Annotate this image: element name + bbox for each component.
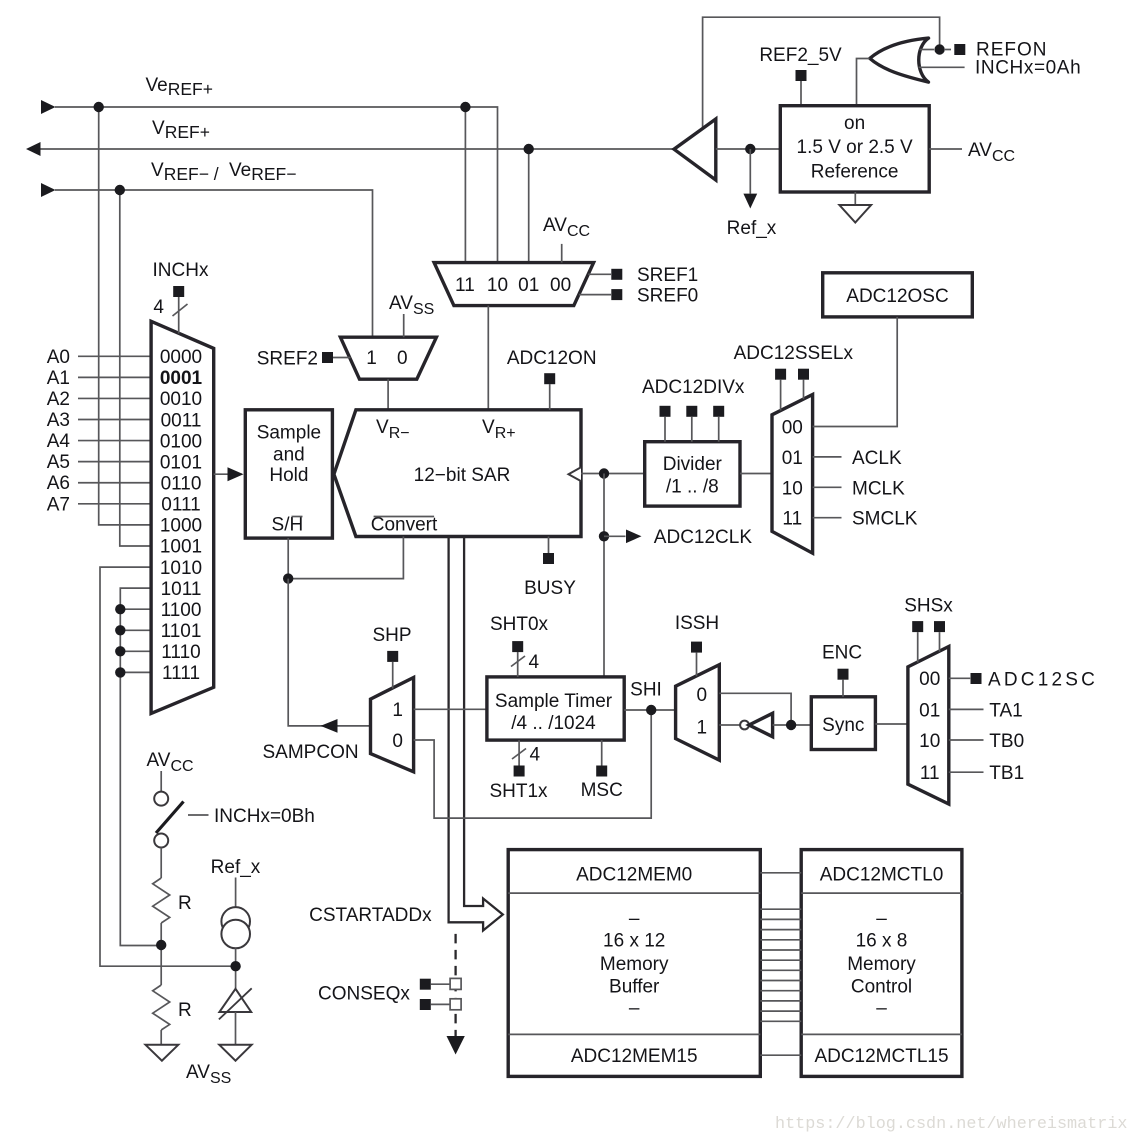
wire SSEL mux output to divider bbox=[740, 473, 772, 475]
svg-text:SHSx: SHSx bbox=[904, 596, 953, 617]
wire switch to INCHx=0Bh label bbox=[188, 814, 209, 816]
bus-width tick SHT0x bbox=[511, 656, 525, 667]
wire CONSEQx bit0 bbox=[431, 983, 450, 985]
svg-text:10: 10 bbox=[487, 275, 508, 296]
svg-text:INCHx: INCHx bbox=[153, 260, 209, 281]
arrowhead ADC12CLK bbox=[626, 530, 642, 544]
pin REFON square bbox=[954, 44, 965, 55]
svg-text:ADC12OSC: ADC12OSC bbox=[846, 286, 948, 307]
resistor R2 bbox=[153, 985, 170, 1030]
block U-MCTL 16x8 memory control bbox=[801, 850, 962, 1077]
svg-text:0: 0 bbox=[397, 348, 408, 369]
wire SSELx bit0 bbox=[780, 380, 782, 411]
pin ADC12ON square bbox=[544, 373, 555, 384]
wire temp-sensor net to mux row 1010 bbox=[100, 567, 236, 966]
block U-OSC ADC12OSC bbox=[823, 273, 973, 317]
block U-SYNC Sync bbox=[811, 697, 875, 750]
wire reference ground stem bbox=[854, 192, 856, 205]
wire Ve_REF+ line to ref-mux input 10 bbox=[55, 107, 498, 263]
svg-text:0: 0 bbox=[392, 731, 403, 752]
wire SREF0 from ref mux bbox=[579, 294, 611, 296]
svg-text:1.5 V or 2.5 V: 1.5 V or 2.5 V bbox=[797, 137, 914, 158]
wire SHP input 1 from sample timer bbox=[414, 708, 487, 710]
block U-REF 1.5V/2.5V Reference bbox=[780, 106, 929, 192]
wire AVCC to ref mux input 00 bbox=[561, 244, 563, 263]
node junction on divider net bbox=[115, 646, 125, 656]
wire mux input row 1001 from V_REF- bbox=[120, 190, 151, 546]
svg-text:Control: Control bbox=[851, 977, 912, 998]
svg-text:A2: A2 bbox=[47, 389, 70, 410]
node junction sync output bbox=[786, 720, 796, 730]
pin ADC12SC square bbox=[971, 673, 982, 684]
node junction V_REF+ / input 01 bbox=[524, 144, 534, 154]
svg-text:00: 00 bbox=[919, 669, 940, 690]
node junction V_REF- / row 1001 bbox=[115, 185, 125, 195]
svg-text:1111: 1111 bbox=[162, 663, 200, 684]
pin SREF0 square bbox=[611, 289, 622, 300]
svg-text:4: 4 bbox=[529, 652, 540, 673]
wire channel A3 input bbox=[78, 419, 151, 421]
svg-text:MCLK: MCLK bbox=[852, 478, 905, 499]
wire ADC12ON to SAR bbox=[549, 384, 551, 410]
wire V_REF-/Ve_REF- line to SREF2 mux input 1 bbox=[55, 190, 373, 337]
svg-text:R: R bbox=[178, 893, 192, 914]
svg-text:TA1: TA1 bbox=[989, 700, 1022, 721]
svg-text:Buffer: Buffer bbox=[609, 977, 660, 998]
svg-text:0010: 0010 bbox=[160, 389, 202, 410]
pin convert-clock notch on SAR right edge bbox=[569, 467, 582, 481]
arrowhead Ref_x bbox=[743, 194, 757, 209]
svg-text:SHT1x: SHT1x bbox=[489, 781, 548, 802]
wire TB1 input bbox=[949, 771, 984, 773]
wire ADC12CLK tap out bbox=[604, 535, 626, 537]
wire ADC12DIVx bit to divider bbox=[691, 417, 693, 442]
svg-text:01: 01 bbox=[518, 275, 539, 296]
svg-text:VeREF+: VeREF+ bbox=[146, 75, 213, 99]
wire or-gate output to reference block bbox=[857, 59, 870, 106]
node junction temp sensor bbox=[230, 961, 240, 971]
block U-DIV Divider /1../8 bbox=[645, 442, 740, 506]
svg-text:1100: 1100 bbox=[161, 600, 202, 621]
svg-text:VeREF−: VeREF− bbox=[229, 160, 296, 184]
svg-text:TB0: TB0 bbox=[989, 731, 1024, 752]
svg-text:1: 1 bbox=[366, 348, 377, 369]
svg-text:ADC12MCTL0: ADC12MCTL0 bbox=[820, 865, 944, 886]
wire MCLK input bbox=[813, 486, 842, 488]
wire channel A1 input bbox=[78, 376, 151, 378]
pin BUSY square bbox=[543, 553, 554, 564]
pin SHSx bit0 square bbox=[912, 621, 923, 632]
wire reference output to buffer bbox=[716, 148, 781, 150]
wire AVSS to SREF2 mux input 0 bbox=[403, 314, 405, 337]
svg-text:Ref_x: Ref_x bbox=[727, 218, 777, 239]
wire REFON input to or-gate bbox=[920, 49, 935, 51]
node junction Ref_x tap bbox=[745, 144, 755, 154]
svg-text:10: 10 bbox=[919, 731, 940, 752]
wire Ref_x down bbox=[749, 149, 751, 194]
svg-text:01: 01 bbox=[919, 700, 940, 721]
svg-text:VREF− /: VREF− / bbox=[151, 160, 219, 184]
svg-text:SREF2: SREF2 bbox=[257, 349, 318, 370]
pin ENC square bbox=[838, 669, 849, 680]
svg-text:Hold: Hold bbox=[269, 465, 308, 486]
svg-text:Divider: Divider bbox=[663, 454, 723, 475]
mux V_R+ reference select bbox=[434, 263, 593, 306]
wire REFON stub bbox=[945, 49, 951, 51]
svg-text:Memory: Memory bbox=[600, 954, 669, 975]
svg-text:CSTARTADDx: CSTARTADDx bbox=[309, 905, 432, 926]
node junction S/H-convert bbox=[283, 573, 293, 583]
svg-text:/1 .. /8: /1 .. /8 bbox=[666, 477, 719, 498]
wire INCHx=0Ah input to or-gate bbox=[919, 66, 965, 68]
svg-text:https://blog.csdn.net/whereism: https://blog.csdn.net/whereismatrix bbox=[775, 1115, 1127, 1134]
svg-text:0100: 0100 bbox=[160, 431, 202, 452]
svg-text:0101: 0101 bbox=[160, 452, 202, 473]
pin CONSEQx bit0 square bbox=[420, 979, 431, 990]
wire mux input row 1100 stub bbox=[120, 608, 151, 610]
wire ACLK input bbox=[813, 456, 842, 458]
node junction REFON bbox=[934, 44, 944, 54]
svg-text:0001: 0001 bbox=[160, 368, 203, 389]
wire SAR clock input from divider bbox=[581, 473, 645, 475]
pin marker open square 0 bbox=[450, 978, 461, 989]
svg-text:A6: A6 bbox=[47, 473, 70, 494]
gate U-INV inverter bubble bbox=[740, 721, 749, 730]
svg-text:ADC12SC: ADC12SC bbox=[988, 670, 1098, 691]
mux ADC12SSELx clock select bbox=[772, 395, 813, 554]
svg-text:ADC12CLK: ADC12CLK bbox=[654, 527, 753, 548]
separator lines memory control bbox=[801, 893, 962, 1034]
pin ADC12DIVx bit square bbox=[686, 406, 697, 417]
svg-text:SMCLK: SMCLK bbox=[852, 509, 918, 530]
bus-width tick INCHx bbox=[173, 304, 188, 316]
svg-text:4: 4 bbox=[530, 745, 541, 766]
svg-text:1: 1 bbox=[392, 700, 403, 721]
switch S1 arm bbox=[156, 802, 184, 834]
pin ADC12SSELx bit1 square bbox=[798, 369, 809, 380]
wire INCHx control to mux bbox=[178, 297, 180, 334]
gate U-OR or-gate (mirrored, output left) bbox=[870, 38, 929, 82]
svg-text:–: – bbox=[876, 998, 887, 1019]
wire R1 to R2 bbox=[160, 923, 162, 985]
wire ISSH input 0 from sync node bbox=[719, 693, 791, 725]
pin CONSEQx bit1 square bbox=[420, 999, 431, 1010]
mux INCHx input analog multiplexer bbox=[151, 321, 214, 713]
svg-text:REF2_5V: REF2_5V bbox=[759, 45, 842, 66]
pin ISSH square bbox=[691, 642, 702, 653]
svg-text:SHI: SHI bbox=[630, 680, 662, 701]
wire convert tie to SAR bbox=[288, 537, 403, 579]
svg-text:A1: A1 bbox=[47, 368, 70, 389]
svg-text:ADC12ON: ADC12ON bbox=[507, 348, 597, 369]
separator lines memory buffer bbox=[508, 893, 760, 1034]
wire TA1 input bbox=[949, 708, 984, 710]
svg-text:SAMPCON: SAMPCON bbox=[263, 742, 359, 763]
arrowhead SAMPCON (points left) bbox=[321, 719, 338, 733]
pin MSC square bbox=[596, 766, 607, 777]
svg-text:00: 00 bbox=[782, 418, 803, 439]
svg-text:1110: 1110 bbox=[161, 642, 200, 663]
wire SREF2 to mux bbox=[333, 357, 351, 359]
node junction on divider net bbox=[115, 604, 125, 614]
svg-text:MSC: MSC bbox=[581, 780, 623, 801]
buffer U-BUF reference buffer triangle bbox=[674, 119, 716, 180]
svg-text:Sample: Sample bbox=[257, 423, 321, 444]
arrowhead V_REF+ pin (points left) bbox=[26, 142, 41, 156]
svg-text:ISSH: ISSH bbox=[675, 613, 719, 634]
block U-MEM 16x12 memory buffer bbox=[508, 850, 760, 1077]
svg-text:BUSY: BUSY bbox=[524, 578, 576, 599]
wire AVCC supply to reference bbox=[929, 148, 962, 150]
svg-text:00: 00 bbox=[550, 275, 571, 296]
wire ADC12DIVx bit to divider bbox=[664, 417, 666, 442]
wire SHT0x to timer bbox=[517, 652, 519, 677]
wire mux input row 1110 stub bbox=[120, 650, 151, 652]
svg-text:TB1: TB1 bbox=[989, 763, 1024, 784]
svg-text:ACLK: ACLK bbox=[852, 448, 902, 469]
svg-text:Ref_x: Ref_x bbox=[211, 857, 261, 878]
svg-text:–: – bbox=[629, 909, 640, 930]
node junction divider midpoint bbox=[156, 940, 166, 950]
node junction ADC12CLK bbox=[599, 468, 609, 478]
wire CONSEQx dashed pointer bbox=[454, 934, 456, 1036]
wire channel A6 input bbox=[78, 482, 151, 484]
svg-text:SHP: SHP bbox=[372, 625, 411, 646]
node junction on divider net bbox=[115, 625, 125, 635]
pin SREF1 square bbox=[611, 269, 622, 280]
wire REFON feedback to buffer enable bbox=[703, 17, 940, 130]
bus-width tick SHT1x bbox=[512, 749, 526, 760]
svg-text:A4: A4 bbox=[47, 431, 71, 452]
svg-text:ADC12DIVx: ADC12DIVx bbox=[642, 377, 745, 398]
pin INCHx control square bbox=[173, 286, 184, 297]
gate U-INV inverter triangle bbox=[749, 713, 773, 736]
svg-text:CONSEQx: CONSEQx bbox=[318, 984, 410, 1005]
block U-S/H Sample and Hold bbox=[245, 410, 332, 538]
wire SHSx bit0 bbox=[917, 632, 919, 662]
wire V_REF+ line from buffer to pin bbox=[41, 148, 675, 150]
node junction Ve_REF+ / row 1000 bbox=[94, 102, 104, 112]
wire ref mux output to SAR V_R+ bbox=[487, 306, 489, 410]
svg-text:01: 01 bbox=[782, 448, 803, 469]
wire channel A2 input bbox=[78, 397, 151, 399]
wire current source to diode bbox=[235, 948, 237, 989]
wire divider mid-node net to mux row 1011 bbox=[120, 588, 161, 945]
switch S1 INCHx=0Bh contact circles bbox=[154, 792, 168, 806]
arrowhead V_REF-/Ve_REF- pin bbox=[41, 183, 56, 197]
wire ENC to sync bbox=[842, 680, 844, 697]
wire bus between memory buffer and control bbox=[760, 873, 801, 1055]
wire REF2_5V to reference block bbox=[800, 81, 802, 106]
wire SAMPCON from SHP mux output bbox=[288, 579, 370, 726]
svg-text:SHT0x: SHT0x bbox=[490, 614, 549, 635]
svg-text:on: on bbox=[844, 113, 865, 134]
wire ISSH input 1 from inverter bbox=[719, 724, 740, 726]
svg-text:ADC12MCTL15: ADC12MCTL15 bbox=[814, 1046, 948, 1067]
wire CONSEQx bit1 bbox=[431, 1003, 450, 1005]
svg-text:16 x 8: 16 x 8 bbox=[856, 931, 908, 952]
svg-text:A0: A0 bbox=[47, 347, 70, 368]
svg-text:–: – bbox=[876, 909, 887, 930]
svg-text:Sync: Sync bbox=[822, 715, 864, 736]
svg-text:INCHx=0Bh: INCHx=0Bh bbox=[214, 806, 315, 827]
wire channel A5 input bbox=[78, 461, 151, 463]
pin SHT0x square bbox=[512, 641, 523, 652]
wire SHSx mux output to sync bbox=[875, 723, 908, 725]
svg-text:11: 11 bbox=[920, 763, 940, 784]
wire BUSY from SAR bbox=[548, 537, 550, 554]
wire ref-mux input 01 from V_REF+ bbox=[528, 149, 530, 263]
wire mux input row 1000 from Ve_REF+ bbox=[99, 107, 151, 525]
current source I1 (two circles) bbox=[221, 907, 250, 936]
svg-text:1001: 1001 bbox=[160, 537, 202, 558]
wire CSTARTADDx bus shaft from SAR to memory buffer bbox=[449, 537, 503, 931]
svg-text:0000: 0000 bbox=[160, 347, 202, 368]
wire ADC12SC input bbox=[949, 677, 970, 679]
wire ref-mux input 11 from Ve_REF+ bbox=[464, 107, 466, 263]
svg-text:12−bit SAR: 12−bit SAR bbox=[414, 465, 511, 486]
pin ADC12DIVx bit square bbox=[660, 406, 671, 417]
pin ADC12DIVx bit square bbox=[713, 406, 724, 417]
svg-text:1: 1 bbox=[697, 717, 708, 738]
svg-text:11: 11 bbox=[782, 509, 802, 530]
svg-text:Memory: Memory bbox=[847, 954, 916, 975]
svg-text:1011: 1011 bbox=[161, 579, 202, 600]
svg-text:16 x 12: 16 x 12 bbox=[603, 931, 665, 952]
ground symbol at divider bbox=[146, 1045, 179, 1061]
diode D1 temperature sensor bbox=[219, 989, 251, 1012]
mux SHP select bbox=[371, 678, 414, 772]
wire SMCLK input bbox=[813, 517, 842, 519]
svg-text:S/H: S/H bbox=[272, 515, 304, 536]
svg-text:0011: 0011 bbox=[161, 410, 202, 431]
svg-text:A7: A7 bbox=[47, 494, 70, 515]
arrowhead into sample-and-hold bbox=[228, 467, 244, 481]
svg-text:and: and bbox=[273, 444, 305, 465]
svg-text:ENC: ENC bbox=[822, 643, 862, 664]
block U-SAR 12-bit SAR converter bbox=[334, 410, 581, 537]
svg-text:Reference: Reference bbox=[811, 162, 899, 183]
wire ISSH control to mux bbox=[696, 653, 698, 677]
wire SHSx bit1 bbox=[939, 632, 941, 652]
wire SHP control to mux bbox=[392, 662, 394, 689]
wire mux output to sample-and-hold bbox=[214, 473, 242, 475]
wire MSC from timer bbox=[601, 740, 603, 765]
arrowhead CONSEQx pointer bbox=[447, 1036, 465, 1055]
pin SHP square bbox=[387, 651, 398, 662]
svg-text:A3: A3 bbox=[47, 410, 70, 431]
wire mux input row 1101 stub bbox=[120, 629, 151, 631]
wire S/H control down bbox=[287, 538, 289, 579]
node SHI junction bbox=[646, 705, 656, 715]
wire AVCC stub bbox=[160, 771, 162, 791]
svg-text:4: 4 bbox=[153, 297, 164, 318]
svg-text:0: 0 bbox=[697, 685, 708, 706]
svg-text:ADC12SSELx: ADC12SSELx bbox=[734, 343, 854, 364]
wire mux input row 1111 stub bbox=[120, 671, 151, 673]
svg-text:Convert: Convert bbox=[371, 515, 438, 536]
node junction on divider net bbox=[115, 667, 125, 677]
wire channel A7 input bbox=[78, 503, 151, 505]
ground symbol at reference bbox=[839, 205, 871, 223]
wire SHT1x from timer bbox=[518, 740, 520, 765]
wire SREF2 mux output to SAR V_R- bbox=[387, 379, 389, 410]
svg-text:SREF1: SREF1 bbox=[637, 265, 698, 286]
svg-text:0110: 0110 bbox=[161, 474, 202, 495]
wire SHP input 0 from SHI bbox=[414, 710, 652, 818]
pin SHSx bit1 square bbox=[934, 621, 945, 632]
resistor R1 bbox=[153, 878, 170, 923]
wire SHI into ISSH mux bbox=[624, 709, 675, 711]
pin ADC12SSELx bit0 square bbox=[775, 369, 786, 380]
wire SREF1 from ref mux bbox=[588, 273, 611, 275]
block U-ST Sample Timer /4../1024 bbox=[487, 677, 624, 740]
mux SREF2 select (1 0) bbox=[340, 337, 436, 379]
svg-text:0111: 0111 bbox=[161, 495, 200, 516]
node junction ADC12CLK tap bbox=[599, 531, 609, 541]
svg-text:11: 11 bbox=[455, 275, 475, 296]
svg-text:R: R bbox=[178, 1000, 192, 1021]
svg-text:/4 .. /1024: /4 .. /1024 bbox=[511, 713, 596, 734]
svg-text:Sample Timer: Sample Timer bbox=[495, 691, 613, 712]
svg-text:1000: 1000 bbox=[160, 516, 202, 537]
wire switch to resistor R1 bbox=[160, 848, 162, 879]
wire channel A4 input bbox=[78, 440, 151, 442]
node junction Ve_REF+ / input 11 bbox=[460, 102, 470, 112]
mux ISSH invert select bbox=[676, 665, 720, 761]
wire R2 to ground bbox=[160, 1030, 162, 1045]
svg-text:1101: 1101 bbox=[161, 621, 202, 642]
wire diode to ground bbox=[235, 1012, 237, 1045]
wire ADC12OSC to mux input 00 bbox=[813, 317, 898, 427]
wire inverter input from sync output bbox=[773, 724, 812, 726]
pin REF2_5V square bbox=[796, 70, 807, 81]
pin SREF2 square bbox=[322, 352, 333, 363]
wire Ref_x to current source bbox=[235, 878, 237, 908]
wire SSELx bit1 bbox=[803, 380, 805, 399]
svg-text:–: – bbox=[629, 998, 640, 1019]
pin marker open square 1 bbox=[450, 999, 461, 1010]
wire TB0 input bbox=[949, 739, 984, 741]
svg-text:ADC12MEM15: ADC12MEM15 bbox=[571, 1046, 698, 1067]
svg-text:INCHx=0Ah: INCHx=0Ah bbox=[975, 58, 1081, 79]
mux SHSx trigger select bbox=[908, 647, 949, 805]
svg-text:10: 10 bbox=[782, 478, 803, 499]
svg-text:1010: 1010 bbox=[160, 558, 202, 579]
svg-text:SREF0: SREF0 bbox=[637, 286, 698, 307]
svg-text:VREF+: VREF+ bbox=[152, 118, 210, 142]
svg-text:ADC12MEM0: ADC12MEM0 bbox=[576, 865, 692, 886]
ground symbol at temp sensor bbox=[219, 1045, 251, 1061]
wire channel A0 input bbox=[78, 355, 151, 357]
svg-text:A5: A5 bbox=[47, 452, 70, 473]
pin SHT1x square bbox=[514, 766, 525, 777]
arrowhead Ve_REF+ pin bbox=[41, 100, 56, 114]
wire ADC12DIVx bit to divider bbox=[718, 417, 720, 442]
wire ADC12CLK down to sample timer bbox=[603, 474, 605, 677]
